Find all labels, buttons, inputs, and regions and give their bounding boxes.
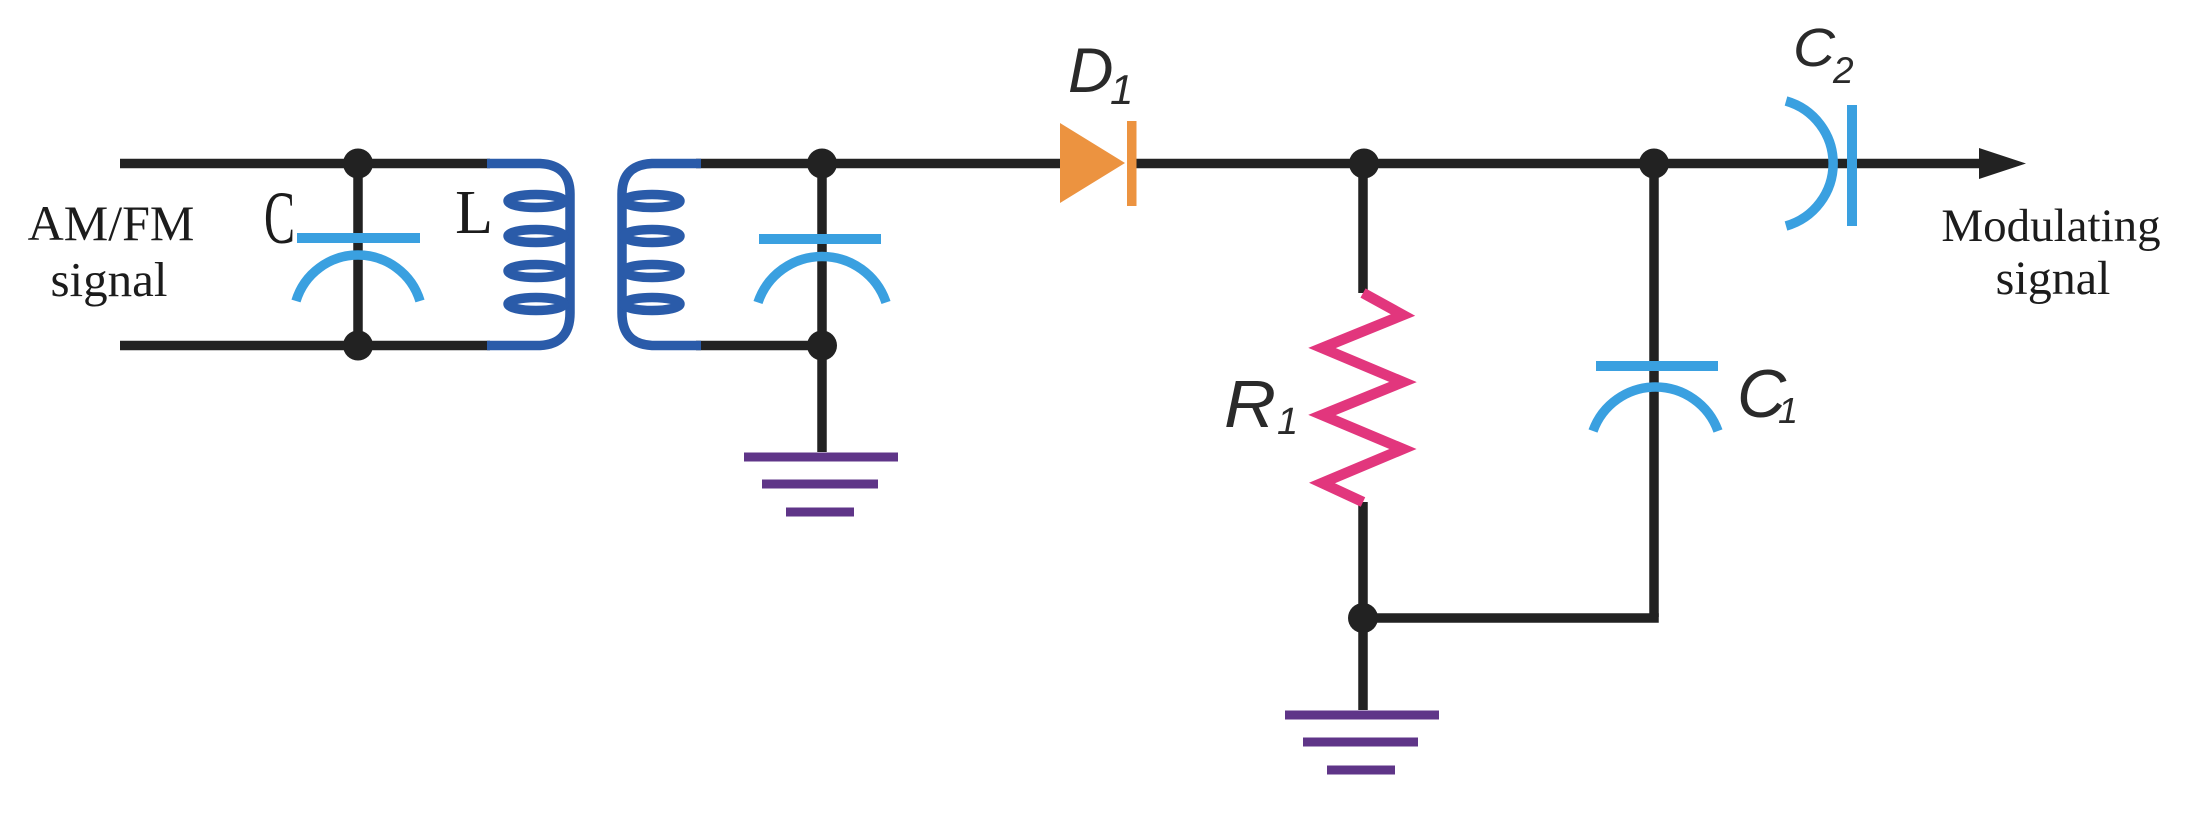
resistor R1 zigzag bbox=[1322, 293, 1403, 502]
capacitor C1: straight plate bbox=[1596, 361, 1718, 371]
svg-text:Modulating: Modulating bbox=[1941, 200, 2160, 252]
svg-text:D: D bbox=[1068, 36, 1114, 106]
wire: top rail node down to resistor R1 bbox=[1358, 164, 1368, 294]
transformer secondary loop 3 bbox=[624, 265, 680, 278]
svg-text:1: 1 bbox=[1778, 390, 1798, 431]
secondary tuning capacitor: straight plate bbox=[759, 234, 881, 244]
inductor L: primary winding frame bbox=[487, 164, 570, 346]
capacitor C2: straight plate bbox=[1847, 105, 1857, 226]
wire: secondary node to ground bbox=[817, 346, 827, 453]
wire: resistor R1 bottom to ground node bbox=[1358, 502, 1368, 618]
svg-text:AM/FM: AM/FM bbox=[28, 195, 195, 251]
ground symbol (secondary): bar 2 bbox=[762, 480, 878, 489]
diode D1: anode triangle bbox=[1060, 123, 1125, 203]
svg-text:signal: signal bbox=[1996, 252, 2111, 305]
svg-text:C: C bbox=[264, 177, 295, 260]
inductor L: primary loop 2 bbox=[508, 230, 564, 243]
transformer secondary loop 2 bbox=[624, 230, 680, 243]
node: top rail at R1 bbox=[1349, 149, 1379, 179]
transformer secondary winding frame bbox=[622, 164, 701, 346]
inductor L: primary loop 4 bbox=[508, 298, 564, 311]
wire: bottom-left rail bbox=[120, 341, 490, 351]
wire: top-left rail bbox=[120, 159, 490, 169]
wire: top rail from secondary coil to diode bbox=[696, 159, 1062, 169]
arrowhead: modulating signal output bbox=[1979, 148, 2026, 179]
diode D1: cathode bar bbox=[1127, 121, 1137, 206]
wire: vertical through capacitor C1 bbox=[1649, 164, 1659, 618]
node: top of secondary capacitor bbox=[807, 149, 837, 179]
node: bottom of secondary capacitor bbox=[807, 331, 837, 361]
capacitor C1: curved plate bbox=[1593, 387, 1718, 431]
ground symbol (R1): bar 1 bbox=[1285, 711, 1439, 720]
node: R1 bottom / ground junction bbox=[1348, 603, 1378, 633]
transformer secondary loop 4 bbox=[624, 298, 680, 311]
wire: top rail from diode cathode to arrow bbox=[1134, 159, 1990, 169]
svg-text:L: L bbox=[455, 179, 493, 247]
wire: vertical through capacitor C bbox=[353, 164, 363, 346]
svg-text:signal: signal bbox=[50, 252, 167, 307]
node: top rail at C1 bbox=[1639, 149, 1669, 179]
svg-text:C: C bbox=[1793, 18, 1836, 78]
svg-text:1: 1 bbox=[1277, 401, 1298, 443]
svg-text:R: R bbox=[1224, 367, 1276, 442]
transformer secondary loop 1 bbox=[624, 195, 680, 208]
svg-text:2: 2 bbox=[1832, 50, 1854, 91]
capacitor C: curved plate bbox=[296, 255, 420, 301]
capacitor C: straight plate bbox=[297, 233, 420, 243]
wire: vertical through secondary tuning capacitor bbox=[817, 164, 827, 346]
ground symbol (secondary): bar 3 bbox=[786, 508, 854, 517]
wire: ground node down to ground symbol bbox=[1358, 618, 1368, 710]
node: bottom of capacitor C bbox=[343, 331, 373, 361]
ground symbol (R1): bar 2 bbox=[1303, 738, 1418, 747]
wire: bottom horizontal from R1 ground node to C1 bbox=[1363, 613, 1659, 623]
svg-text:1: 1 bbox=[1110, 66, 1133, 113]
capacitor C2: curved plate bbox=[1786, 101, 1833, 226]
ground symbol (R1): bar 3 bbox=[1327, 766, 1395, 775]
wire: bottom rail from secondary coil to ground node bbox=[696, 341, 822, 351]
ground symbol (secondary): bar 1 bbox=[744, 453, 898, 462]
inductor L: primary loop 3 bbox=[508, 265, 564, 278]
node: top of capacitor C bbox=[343, 149, 373, 179]
inductor L: primary loop 1 bbox=[508, 195, 564, 208]
secondary tuning capacitor: curved plate bbox=[758, 256, 886, 302]
